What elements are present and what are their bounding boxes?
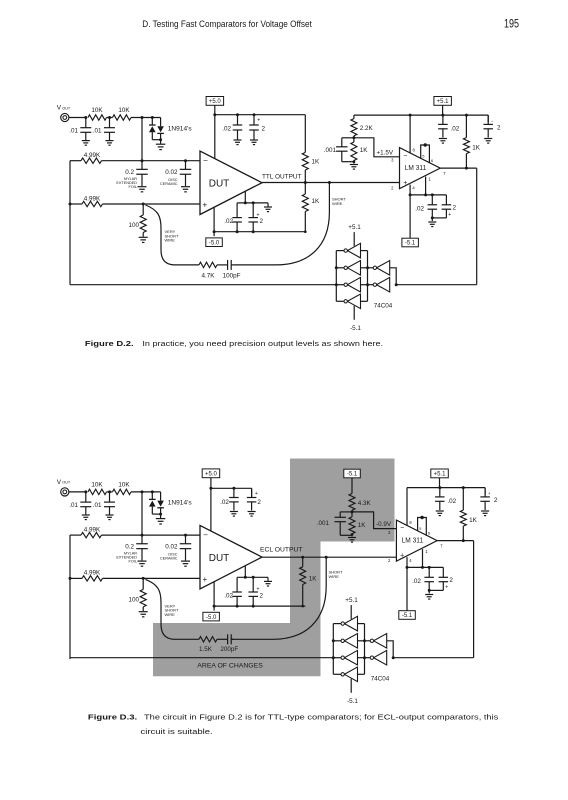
- svg-text:CERAMIC: CERAMIC: [160, 557, 178, 561]
- svg-text:WIRE: WIRE: [165, 238, 176, 243]
- svg-text:-5.1: -5.1: [402, 613, 413, 619]
- svg-text:+: +: [488, 491, 491, 496]
- svg-text:1K: 1K: [358, 522, 367, 529]
- svg-text:.02: .02: [451, 125, 460, 132]
- svg-text:−: −: [403, 152, 407, 159]
- svg-text:.02: .02: [224, 218, 233, 225]
- svg-text:Figure D.2.: Figure D.2.: [85, 339, 134, 348]
- svg-text:2: 2: [494, 497, 498, 504]
- svg-text:+5.0: +5.0: [205, 472, 218, 478]
- svg-text:74C04: 74C04: [371, 676, 390, 683]
- svg-text:+5.1: +5.1: [348, 224, 361, 231]
- svg-text:0.02: 0.02: [165, 544, 178, 551]
- svg-text:V: V: [57, 479, 62, 486]
- svg-text:10K: 10K: [91, 482, 103, 489]
- svg-text:FOIL: FOIL: [129, 185, 137, 189]
- svg-text:+: +: [202, 201, 207, 210]
- svg-text:4.99K: 4.99K: [84, 526, 101, 533]
- svg-text:WIRE: WIRE: [332, 201, 343, 206]
- svg-text:4.7K: 4.7K: [202, 272, 216, 279]
- svg-text:10K: 10K: [118, 107, 130, 114]
- svg-text:In practice, you need precisio: In practice, you need precision output l…: [142, 339, 383, 348]
- svg-text:FOIL: FOIL: [129, 559, 137, 563]
- svg-text:100pF: 100pF: [223, 272, 241, 279]
- svg-text:4.3K: 4.3K: [358, 500, 372, 507]
- svg-text:+: +: [257, 212, 260, 218]
- svg-text:+: +: [448, 212, 451, 218]
- svg-text:-5.0: -5.0: [209, 240, 220, 246]
- svg-text:+: +: [255, 491, 258, 497]
- svg-text:195: 195: [504, 19, 519, 31]
- svg-text:-5.1: -5.1: [347, 698, 358, 705]
- svg-text:DUT: DUT: [209, 179, 230, 190]
- svg-text:.02: .02: [224, 592, 233, 599]
- svg-text:.001: .001: [317, 520, 330, 527]
- svg-text:+5.1: +5.1: [345, 597, 358, 604]
- svg-text:OUT: OUT: [62, 106, 71, 110]
- svg-text:+: +: [257, 587, 260, 593]
- svg-text:2.2K: 2.2K: [360, 125, 374, 132]
- svg-text:-5.1: -5.1: [350, 325, 361, 332]
- svg-text:V: V: [57, 105, 62, 112]
- svg-text:-0.9V: -0.9V: [376, 521, 392, 528]
- svg-text:0.2: 0.2: [125, 169, 134, 176]
- svg-text:1N914's: 1N914's: [168, 125, 193, 132]
- svg-text:.01: .01: [93, 502, 102, 509]
- svg-text:2: 2: [497, 124, 501, 131]
- svg-text:.02: .02: [222, 125, 231, 132]
- svg-text:WIRE: WIRE: [165, 612, 176, 617]
- svg-text:−: −: [203, 156, 208, 165]
- svg-text:AREA OF CHANGES: AREA OF CHANGES: [197, 662, 262, 669]
- svg-text:TTL OUTPUT: TTL OUTPUT: [262, 173, 302, 180]
- svg-text:4.99K: 4.99K: [84, 570, 101, 577]
- svg-text:+: +: [400, 553, 404, 560]
- svg-text:+: +: [403, 180, 407, 187]
- svg-text:1K: 1K: [469, 517, 478, 524]
- svg-text:10K: 10K: [118, 482, 130, 489]
- svg-text:2: 2: [453, 204, 457, 211]
- svg-text:.01: .01: [93, 128, 102, 135]
- svg-text:+5.1: +5.1: [434, 472, 447, 478]
- svg-text:.001: .001: [324, 147, 337, 154]
- svg-text:1K: 1K: [360, 147, 369, 154]
- svg-text:−: −: [491, 118, 494, 123]
- svg-text:+: +: [445, 584, 448, 590]
- svg-text:1N914's: 1N914's: [168, 500, 193, 507]
- svg-text:-5.0: -5.0: [206, 615, 217, 621]
- svg-text:74C04: 74C04: [374, 303, 393, 310]
- svg-text:1K: 1K: [472, 144, 481, 151]
- svg-text:0.2: 0.2: [125, 544, 134, 551]
- svg-text:4.99K: 4.99K: [84, 195, 101, 202]
- svg-text:1K: 1K: [312, 198, 321, 205]
- svg-text:2: 2: [257, 499, 261, 506]
- svg-text:DUT: DUT: [209, 553, 230, 564]
- svg-text:LM 311: LM 311: [405, 165, 427, 172]
- svg-text:Figure D.3.: Figure D.3.: [88, 713, 137, 722]
- svg-text:.01: .01: [69, 128, 78, 135]
- svg-text:LM 311: LM 311: [402, 538, 424, 545]
- svg-text:ECL OUTPUT: ECL OUTPUT: [260, 547, 303, 554]
- svg-text:.02: .02: [415, 205, 424, 212]
- svg-text:.02: .02: [220, 499, 229, 506]
- svg-text:+: +: [202, 575, 207, 584]
- svg-text:1K: 1K: [309, 576, 318, 583]
- svg-text:4.99K: 4.99K: [84, 152, 101, 159]
- svg-text:CERAMIC: CERAMIC: [160, 182, 178, 186]
- svg-text:The circuit in Figure D.2 is f: The circuit in Figure D.2 is for TTL-typ…: [144, 713, 499, 722]
- svg-text:.01: .01: [69, 502, 78, 509]
- svg-text:−: −: [400, 525, 404, 532]
- svg-text:100: 100: [128, 222, 139, 229]
- svg-text:+: +: [257, 118, 260, 124]
- svg-text:WIRE: WIRE: [329, 574, 340, 579]
- svg-text:2: 2: [260, 218, 264, 225]
- svg-text:.02: .02: [447, 498, 456, 505]
- svg-text:2: 2: [449, 577, 453, 584]
- svg-text:1K: 1K: [312, 159, 321, 166]
- svg-text:-5.1: -5.1: [347, 472, 358, 478]
- svg-text:.02: .02: [412, 578, 421, 585]
- svg-text:100: 100: [128, 596, 139, 603]
- svg-text:-5.1: -5.1: [405, 241, 416, 247]
- svg-text:1.5K: 1.5K: [199, 646, 213, 653]
- svg-text:D. Testing Fast Comparators fo: D. Testing Fast Comparators for Voltage …: [142, 19, 312, 29]
- svg-text:OUT: OUT: [62, 481, 71, 485]
- svg-text:0.02: 0.02: [165, 169, 178, 176]
- svg-text:circuit is suitable.: circuit is suitable.: [141, 727, 213, 736]
- svg-text:+5.0: +5.0: [209, 99, 222, 105]
- svg-text:+5.1: +5.1: [437, 99, 450, 105]
- svg-text:+1.5V: +1.5V: [377, 149, 394, 156]
- svg-text:200pF: 200pF: [220, 646, 238, 653]
- svg-text:2: 2: [262, 125, 266, 132]
- svg-text:−: −: [203, 531, 208, 540]
- svg-text:2: 2: [260, 592, 264, 599]
- svg-text:10K: 10K: [91, 107, 103, 114]
